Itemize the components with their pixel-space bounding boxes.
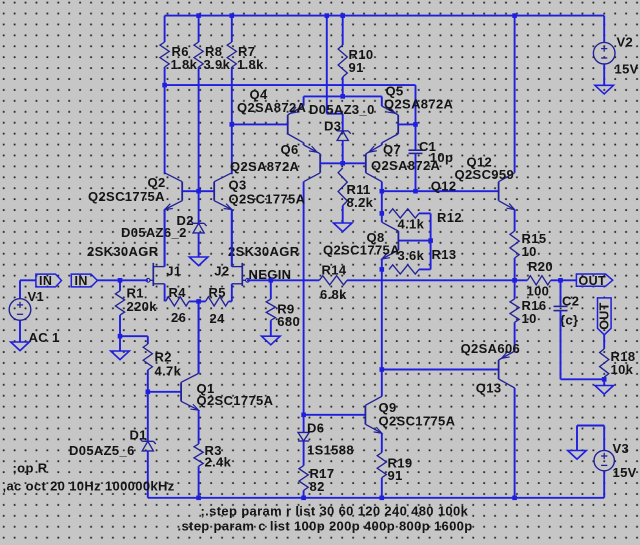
transistor Q9 (NPN) <box>364 405 366 424</box>
resistor R10 <box>338 45 347 77</box>
wire Q8 emitter down <box>381 259 383 269</box>
svg-text:Q2SA872A: Q2SA872A <box>384 97 454 112</box>
wire R1 node to ground stub <box>119 336 121 351</box>
wire R6 node down to Q2 collector <box>164 85 166 174</box>
junction Q1 base node <box>146 390 151 395</box>
wire R13 right corner <box>419 268 431 270</box>
junction R6/bias rail <box>162 83 167 88</box>
wire Q3 emitter down to J2 drain <box>231 210 233 267</box>
transistor Q13 (PNP) <box>498 360 500 379</box>
diode D1 (zener) <box>142 440 153 442</box>
svg-text:82: 82 <box>310 479 325 494</box>
svg-text:D05AZ3_0: D05AZ3_0 <box>309 102 375 117</box>
wire Q8 collector up <box>381 213 383 222</box>
junction Q2-Q3 base / R8 <box>196 189 201 194</box>
svg-text:Q2: Q2 <box>148 175 166 190</box>
svg-text:OUT: OUT <box>579 274 606 288</box>
wire R14 to R20 <box>347 279 527 281</box>
junction R12 left <box>380 211 385 216</box>
wire D3 branch vertical <box>326 16 328 114</box>
svg-text:100: 100 <box>527 283 550 298</box>
wire V3 plus up <box>603 426 605 451</box>
wire Q13 base rail <box>382 369 499 371</box>
svg-text:3.6k: 3.6k <box>398 248 425 263</box>
wire R10 bottom lead <box>342 77 344 96</box>
svg-text:1S1588: 1S1588 <box>307 442 354 457</box>
wire ground stub below R18 node <box>603 379 605 385</box>
wire J2 gate lead to NEGIN <box>247 279 319 281</box>
wire Q12 emitter down <box>514 210 516 231</box>
wire V2 top <box>603 16 605 43</box>
junction Q13 base tap <box>380 367 385 372</box>
svg-text:D05AZ6_2: D05AZ6_2 <box>121 225 187 240</box>
svg-text:D6: D6 <box>307 420 324 435</box>
wire R7 top lead <box>231 16 233 42</box>
svg-text:;.step param r list 30 60 120: ;.step param r list 30 60 120 240 480 10… <box>201 503 469 518</box>
ground R9 <box>262 336 281 345</box>
wire D3 anode to base node <box>342 141 344 164</box>
svg-text:1.8k: 1.8k <box>237 57 264 72</box>
svg-text:D05AZ5_6: D05AZ5_6 <box>69 443 135 458</box>
wire R12 right corner <box>419 212 431 214</box>
junction tail node <box>196 299 201 304</box>
svg-text:2SK30AGR: 2SK30AGR <box>228 244 300 259</box>
resistor R17 <box>299 466 308 491</box>
wire emitter rail y96 <box>304 95 382 97</box>
transistor Q7 (PNP) <box>365 154 367 173</box>
wire Q6-Q7 base rail <box>320 162 366 164</box>
wire Q4 base <box>232 123 288 125</box>
junction R10 top <box>340 13 345 18</box>
resistor R18 <box>600 349 609 377</box>
svg-text:Q2SC1775A: Q2SC1775A <box>379 413 456 428</box>
svg-text:15V: 15V <box>613 465 637 480</box>
svg-text:R5: R5 <box>209 285 226 300</box>
wire bottom rail <box>148 497 604 499</box>
voltage source V2 <box>593 42 615 64</box>
junction Q5 base / C1 top <box>413 122 418 127</box>
svg-text:2SK30AGR: 2SK30AGR <box>87 244 159 259</box>
svg-text:{c}: {c} <box>560 312 578 327</box>
resistor R7 <box>227 42 236 67</box>
jfet J1 (2SK30AGR) <box>152 263 154 286</box>
wire C2 top lead <box>560 280 562 306</box>
svg-text:6.8k: 6.8k <box>320 287 347 302</box>
resistor R13 <box>389 265 419 274</box>
wire R3 bottom lead <box>198 466 200 498</box>
junction R3 / bottom rail <box>196 496 201 501</box>
wire OUT2 to R18 <box>603 335 605 349</box>
svg-text:220k: 220k <box>127 299 158 314</box>
wire Q9 emitter down <box>381 433 383 452</box>
svg-text:R14: R14 <box>322 262 347 277</box>
resistor R20 <box>527 276 550 285</box>
svg-text:10: 10 <box>522 244 537 259</box>
wire J2 drain up <box>231 210 233 267</box>
svg-text:Q3: Q3 <box>229 177 247 192</box>
junction R8 top <box>196 13 201 18</box>
capacitor C1 <box>409 149 423 151</box>
resistor R9 <box>266 299 275 320</box>
wire D2 top lead <box>198 191 200 223</box>
wire R2 top lead <box>147 336 149 344</box>
svg-text:26: 26 <box>171 310 186 325</box>
wire Q1 emitter down <box>198 410 200 444</box>
wire C1 bottom lead <box>415 153 417 191</box>
port OUT (horizontal) <box>576 274 612 286</box>
wire VAS node down <box>381 269 383 369</box>
svg-text:R12: R12 <box>437 210 462 225</box>
wire R16 bottom to Q13 emitter <box>514 322 516 351</box>
resistor R15 <box>510 231 519 258</box>
resistor R8 <box>194 42 203 67</box>
svg-text:C2: C2 <box>562 293 579 308</box>
wire Q1 base <box>148 391 181 393</box>
resistor R6 <box>160 42 169 67</box>
svg-text:IN: IN <box>75 274 88 288</box>
wire down to Q9 collector <box>381 370 383 397</box>
wire R15 bottom lead <box>514 258 516 280</box>
wire J2 source down <box>231 284 233 302</box>
wire D3 cathode lead <box>342 114 344 131</box>
wire R9 bottom lead <box>270 320 272 336</box>
wire tail down to Q1 collector <box>198 301 200 373</box>
svg-text:Q2SC1775A: Q2SC1775A <box>229 191 306 206</box>
ground D2 <box>189 257 208 266</box>
wire R20 to OUT <box>551 279 577 281</box>
wire C2 to R18 node <box>561 378 605 380</box>
resistor R16 <box>510 299 519 322</box>
diode D2 (zener) <box>193 222 204 224</box>
resistor R5 <box>206 297 229 306</box>
ground R1 <box>111 351 130 360</box>
wire R8 top lead <box>198 16 200 42</box>
svg-text:8.2k: 8.2k <box>347 195 374 210</box>
svg-text:Q2SA606: Q2SA606 <box>461 341 521 356</box>
svg-text:10k: 10k <box>611 362 634 377</box>
junction D3 branch top <box>325 13 330 18</box>
junction R17 / bottom rail <box>301 496 306 501</box>
wire Q4 collector stub <box>303 143 305 145</box>
junction Q13 / bottom rail <box>512 496 517 501</box>
wire R5 to J2 source <box>229 300 232 302</box>
wire R18 bottom lead <box>603 377 605 379</box>
wire V1 to IN flag <box>20 279 36 281</box>
svg-text:J1: J1 <box>166 263 181 278</box>
wire Q8 base <box>398 240 430 242</box>
port OUT (vertical) <box>598 298 612 335</box>
svg-text:Q2SC1775A: Q2SC1775A <box>88 189 165 204</box>
svg-text:R13: R13 <box>432 247 457 262</box>
svg-text:Q2SC959: Q2SC959 <box>455 167 515 182</box>
junction Q12 collector rail <box>512 13 517 18</box>
diode D6 (1S1588) <box>298 432 309 441</box>
wire Q2-Q3 base <box>182 190 214 192</box>
svg-text:OUT: OUT <box>598 302 612 329</box>
junction R1 top <box>118 278 123 283</box>
wire VAS rail to Q12 base <box>382 190 499 192</box>
svg-text:91: 91 <box>349 60 364 75</box>
transistor Q6 (PNP mirrored) <box>319 154 321 173</box>
jfet J2 (2SK30AGR mirrored) <box>241 263 243 286</box>
wire J1 source down <box>164 284 166 302</box>
resistor R2 <box>143 344 152 370</box>
wire C2 bottom lead <box>560 311 562 380</box>
wire Q13 collector down <box>514 388 516 498</box>
wire Q12 collector up <box>514 16 516 173</box>
wire IN to R1 top <box>97 279 120 281</box>
svg-text:91: 91 <box>388 468 403 483</box>
wire D1 anode to rail <box>147 451 149 498</box>
junction D6 top / Q9 base <box>301 413 306 418</box>
junction Q7 collector / VAS rail <box>380 189 385 194</box>
wire D2 anode lead <box>198 233 200 257</box>
wire Q7 collector down <box>381 182 383 192</box>
wire R17 bottom lead <box>303 490 305 497</box>
svg-text:,ac oct 20 10Hz 100000kHz: ,ac oct 20 10Hz 100000kHz <box>3 479 175 494</box>
wire bias rail corner down to Q5 base <box>415 85 417 124</box>
svg-text:V3: V3 <box>613 441 630 456</box>
svg-text:Q6: Q6 <box>281 142 299 157</box>
wire R10 top lead <box>342 16 344 45</box>
wire Q4 emitter stub <box>303 96 305 105</box>
ground V1 <box>11 342 30 351</box>
resistor R12 <box>389 209 419 218</box>
svg-text:15V: 15V <box>615 61 639 76</box>
ground V3 <box>568 451 587 460</box>
port IN (amp input) <box>71 274 97 287</box>
wire R1 bottom lead <box>119 315 121 336</box>
junction D3 / Q6-Q7 base <box>340 161 345 166</box>
wire R2 bottom lead <box>147 370 149 392</box>
svg-text:;op R: ;op R <box>13 461 48 476</box>
wire R16 top lead <box>514 280 516 299</box>
diode D3 (zener) <box>337 130 348 132</box>
wire R6 bottom to rail <box>164 67 166 85</box>
transistor Q5 (PNP mirrored) <box>397 115 399 134</box>
resistor R14 <box>319 276 347 285</box>
wire R6 top lead <box>164 16 166 42</box>
transistor Q3 (NPN) <box>213 182 215 201</box>
wire D6 to R17 <box>303 441 305 466</box>
ground R11 <box>333 223 352 232</box>
svg-text:R4: R4 <box>169 285 187 300</box>
junction R1 bottom <box>118 334 123 339</box>
svg-text:V1: V1 <box>28 289 45 304</box>
svg-text:D3: D3 <box>324 118 341 133</box>
wire R13 vert <box>430 241 432 270</box>
svg-text:IN: IN <box>39 274 52 288</box>
junction R19 / bottom rail <box>380 496 385 501</box>
wire C1 top lead <box>415 124 417 150</box>
svg-text:Q7: Q7 <box>383 142 401 157</box>
svg-text:D1: D1 <box>130 427 147 442</box>
wire Q9 base <box>304 414 366 416</box>
junction R9 top / NEGIN <box>269 278 274 283</box>
wire D3 branch jog <box>327 113 343 115</box>
junction output rail / R15 <box>512 278 517 283</box>
svg-text:Q2SC1775A: Q2SC1775A <box>197 393 274 408</box>
junction R18 bottom <box>602 377 607 382</box>
resistor R11 <box>338 168 347 206</box>
wire bias rail y85 <box>165 84 416 86</box>
transistor Q2 (NPN mirrored) <box>181 182 183 201</box>
voltage source V1 <box>9 299 31 321</box>
svg-text:.step param c list 100p 200p 4: .step param c list 100p 200p 400p 800p 1… <box>178 518 473 533</box>
wire Vbe mult top <box>381 191 383 213</box>
svg-text:J2: J2 <box>214 263 229 278</box>
wire R7 bottom to Q3 collector <box>231 67 233 174</box>
wire J1 drain up <box>164 210 166 267</box>
svg-text:AC 1: AC 1 <box>29 330 60 345</box>
port IN (source) <box>36 274 62 287</box>
junction R13 left <box>380 267 385 272</box>
resistor R3 <box>194 444 203 466</box>
resistor R4 <box>166 297 190 306</box>
wire R8 bottom to Q2/Q3 bases <box>198 67 200 191</box>
junction Q4 base / R7 node <box>230 122 235 127</box>
wire D6 cathode lead <box>303 415 305 433</box>
wire R1 top lead <box>119 280 121 291</box>
capacitor C2 <box>554 305 568 307</box>
svg-text:3.9k: 3.9k <box>204 57 231 72</box>
transistor Q8 (NPN mirrored) <box>397 231 399 250</box>
wire top V+ rail <box>165 15 605 17</box>
wire R11 bottom lead <box>342 206 344 223</box>
wire R1 node to R2 <box>120 335 148 337</box>
transistor Q4 (PNP) <box>287 115 289 134</box>
ground V2 <box>595 85 614 94</box>
svg-text:V2: V2 <box>617 34 634 49</box>
svg-text:4.1k: 4.1k <box>398 216 425 231</box>
voltage source V3 <box>594 450 614 470</box>
junction R7 top <box>230 13 235 18</box>
wire Q2 emitter down to J1 drain <box>164 210 166 267</box>
svg-text:680: 680 <box>277 314 300 329</box>
svg-text:2.4k: 2.4k <box>205 455 232 470</box>
wire J1 gate lead <box>120 279 148 281</box>
wire R19 bottom lead <box>381 478 383 498</box>
wire V3 bottom lead <box>603 471 605 498</box>
svg-text:4.7k: 4.7k <box>155 364 182 379</box>
transistor Q1 (NPN) <box>180 382 182 401</box>
svg-text:Q2SA872A: Q2SA872A <box>230 159 300 174</box>
resistor R19 <box>377 453 386 478</box>
wire V1 bottom <box>19 320 21 342</box>
wire V3 plus left <box>577 425 604 427</box>
svg-text:1.8k: 1.8k <box>171 57 198 72</box>
wire D1 top lead <box>147 392 149 442</box>
wire R9 top lead <box>270 280 272 299</box>
junction C1 / VAS rail <box>413 189 418 194</box>
junction Q8 base node <box>428 238 433 243</box>
wire V1 top <box>19 280 21 298</box>
wire Q5 base <box>398 123 415 125</box>
svg-text:R2: R2 <box>155 350 172 365</box>
wire Q5 emitter stub <box>381 96 383 106</box>
wire Q6 collector down <box>303 182 305 415</box>
svg-text:Q2SA872A: Q2SA872A <box>237 100 307 115</box>
svg-text:R20: R20 <box>528 259 553 274</box>
wire V2 bottom <box>603 64 605 85</box>
resistor R1 <box>115 291 124 315</box>
svg-text:Q2SC1775A: Q2SC1775A <box>323 243 400 258</box>
svg-text:10: 10 <box>522 311 537 326</box>
junction C2 top / OUT <box>558 278 563 283</box>
svg-text:Q13: Q13 <box>476 380 502 395</box>
wire R4-R5 junction <box>189 300 206 302</box>
wire V3 plus down to ground <box>576 426 578 451</box>
wire Q1 collector up <box>198 301 200 373</box>
svg-text:24: 24 <box>210 311 226 326</box>
transistor Q12 (NPN) <box>498 182 500 201</box>
svg-text:10p: 10p <box>430 150 453 165</box>
ground C2/R18 <box>595 386 614 395</box>
wire Q5 collector stub <box>381 143 383 145</box>
svg-text:Q12: Q12 <box>431 178 457 193</box>
junction R10 / emitter rail <box>340 94 345 99</box>
